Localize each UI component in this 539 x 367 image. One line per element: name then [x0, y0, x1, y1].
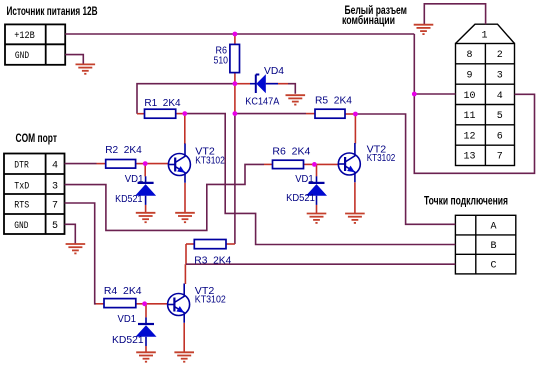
wire R3 right pin	[226, 243, 235, 245]
ground (VD1 stage3)	[136, 352, 156, 361]
pin number 7	[497, 152, 503, 163]
svg-text:9: 9	[466, 71, 472, 82]
ground (VT1 emitter)	[175, 213, 195, 222]
label VT2 (stage2)	[367, 144, 387, 156]
pin label GND (COM)	[14, 221, 28, 232]
svg-text:5: 5	[497, 111, 503, 122]
svg-text:KD521: KD521	[112, 334, 144, 346]
pin number 4	[52, 161, 58, 172]
junction +12V/pin10	[412, 92, 417, 97]
wire J3 to R5 left	[235, 113, 306, 115]
svg-text:KT3102: KT3102	[367, 152, 396, 164]
point label A	[490, 221, 496, 232]
pin number 3	[52, 182, 58, 193]
wire zener node down J2-J3	[234, 84, 236, 114]
wire node down to VD1	[144, 164, 146, 177]
resistor R1 body	[145, 109, 176, 118]
junction R2/VD1/VT1 base	[143, 161, 148, 166]
ground (power GND)	[76, 64, 96, 73]
wire zener node down J3 to R3	[234, 114, 236, 244]
COM port connector box	[4, 154, 65, 235]
ground (VT3 emitter)	[174, 352, 194, 361]
wire pin into R2 left	[97, 163, 106, 165]
wire pin into R6 left	[264, 163, 273, 165]
label KT3102 (stage3)	[195, 294, 226, 306]
svg-text:6: 6	[497, 131, 503, 142]
svg-text:R3 2K4: R3 2K4	[194, 255, 231, 267]
ground (pin 1)	[414, 25, 434, 34]
resistor R5 body	[315, 109, 345, 118]
junction node/R5 branch	[233, 111, 238, 116]
diode VD1 (stage2)	[306, 176, 327, 205]
wire R6 bottom pin to zener node	[234, 73, 236, 84]
transistor VT2 (KT3102)	[338, 143, 361, 182]
label R2 2K4	[105, 144, 142, 156]
svg-text:VD4: VD4	[264, 65, 284, 77]
wire VD4 left pin	[235, 83, 250, 85]
diode VD1 (stage3)	[136, 317, 157, 346]
label R3 2K4	[194, 255, 231, 267]
svg-text:B: B	[490, 241, 496, 252]
resistor R6 510 body	[230, 44, 240, 72]
label VT2 (stage1)	[195, 146, 215, 158]
svg-text:RTS: RTS	[14, 200, 29, 211]
label KD521 (stage1)	[115, 193, 143, 205]
wire VT2 emitter to ground	[354, 182, 356, 213]
transistor VT3 (KT3102)	[167, 284, 190, 323]
wire net A from VT2 node to point A	[355, 114, 455, 224]
svg-text:3: 3	[52, 182, 58, 193]
svg-text:R4 2K4: R4 2K4	[104, 285, 142, 297]
wire RTS routing to R4	[65, 203, 97, 304]
wire pin into R5 left	[306, 113, 315, 115]
wire node to VT2 base	[314, 163, 338, 165]
label R6	[216, 45, 228, 57]
junction R4/VD1/VT3 base	[142, 301, 147, 306]
title: комбинации	[342, 13, 395, 27]
power supply connector X1 box	[5, 24, 65, 64]
svg-text:GND: GND	[14, 221, 28, 232]
diode VD1 (stage1)	[135, 176, 156, 205]
wire loop to pin 4	[414, 94, 534, 173]
wire COM GND to ground	[65, 224, 76, 244]
wire VD4 right pin	[266, 83, 288, 85]
pin number 8	[466, 50, 472, 61]
wire zener node left branch to R1	[137, 84, 235, 114]
svg-text:A: A	[490, 221, 496, 232]
svg-text:R5 2K4: R5 2K4	[315, 95, 352, 107]
pin label RTS	[14, 200, 29, 211]
resistor R4 body	[104, 299, 136, 308]
svg-text:7: 7	[497, 152, 503, 163]
svg-text:13: 13	[463, 152, 475, 163]
svg-text:KD521: KD521	[286, 192, 315, 204]
svg-text:4: 4	[52, 161, 58, 172]
wire node to pin 10	[414, 93, 455, 95]
svg-text:R1 2K4: R1 2K4	[144, 97, 180, 109]
junction R5/VT2 collector	[353, 112, 358, 117]
svg-text:12: 12	[463, 131, 475, 142]
pin label +12В	[14, 31, 35, 42]
wire R5 right pin to node	[345, 113, 356, 115]
junction rail/R6	[233, 32, 238, 37]
label KD521 (stage2)	[286, 192, 315, 204]
wire VT1 emitter to ground	[184, 183, 186, 213]
wire R3 left pin	[186, 243, 194, 245]
svg-text:+12В: +12В	[14, 31, 35, 42]
pin number 4	[497, 91, 503, 102]
label 510	[214, 55, 229, 67]
wire VT3 emitter to ground	[183, 323, 185, 352]
pin label TxD	[14, 182, 29, 193]
label R6 2K4	[272, 146, 310, 158]
label R5 2K4	[315, 95, 352, 107]
wire R2 right pin to node	[136, 163, 146, 165]
wire node down to VD1 bottom	[145, 304, 147, 318]
pin number 11	[463, 111, 475, 122]
svg-text:7: 7	[52, 200, 58, 211]
pin number 12	[463, 131, 475, 142]
svg-text:TxD: TxD	[14, 182, 29, 193]
pin number 13	[463, 152, 475, 163]
wire VD4 to ground	[288, 84, 295, 94]
svg-text:4: 4	[497, 91, 503, 102]
svg-text:R2 2K4: R2 2K4	[105, 144, 142, 156]
svg-text:2: 2	[497, 50, 503, 61]
pin number 1	[481, 31, 487, 42]
wire net C to point C	[186, 263, 455, 265]
pin number 6	[497, 131, 503, 142]
pin number 5	[497, 111, 503, 122]
connection points box	[455, 215, 515, 274]
svg-text:8: 8	[466, 50, 472, 61]
pin label DTR	[14, 161, 28, 172]
svg-text:комбинации: комбинации	[342, 13, 395, 27]
label KC147A	[245, 96, 279, 108]
svg-text:5: 5	[52, 221, 58, 232]
svg-text:COM порт: COM порт	[16, 131, 58, 145]
wire R4 right pin to node	[136, 303, 145, 305]
zener diode VD4 (KC147A)	[250, 74, 278, 93]
wire TxD routing to R6 2K4	[65, 164, 265, 230]
wire VT2 collector	[354, 114, 356, 144]
svg-text:Источник питания 12В: Источник питания 12В	[7, 4, 98, 18]
wire net B from VT1 node to point B	[185, 114, 456, 245]
wire node to VT3 base	[145, 303, 168, 305]
svg-text:1: 1	[481, 31, 487, 42]
label R1 2K4	[144, 97, 180, 109]
wire pin 1 to ground	[424, 4, 485, 25]
wire VD1 to ground	[145, 205, 147, 213]
pin label GND (power)	[15, 51, 29, 62]
ground (VD1 stage2)	[307, 214, 327, 223]
junction zener node	[233, 81, 238, 86]
junction R6/VD1/VT2 base	[312, 162, 317, 167]
wire R3 down to VT3 collector	[185, 244, 187, 264]
wire R1 right pin to node	[176, 113, 185, 115]
wire node down to VD1 mid	[316, 164, 318, 176]
title: Точки подключения	[424, 194, 508, 208]
resistor R3 body	[194, 240, 226, 249]
label VD1 (stage2)	[295, 173, 314, 185]
label VD1 (stage1)	[125, 173, 144, 185]
svg-text:R6 2K4: R6 2K4	[272, 146, 310, 158]
svg-text:510: 510	[214, 55, 229, 67]
ground (VT2 emitter)	[345, 214, 365, 223]
pin number 7	[52, 200, 58, 211]
junction R1/VT1 collector	[182, 111, 187, 116]
transistor VT1 (KT3102)	[168, 144, 191, 183]
label R4 2K4	[104, 285, 142, 297]
pin number 2	[497, 50, 503, 61]
wire R6 right pin to node	[304, 163, 315, 165]
title: COM порт	[16, 131, 58, 145]
label VD1 (stage3)	[118, 313, 137, 325]
svg-text:VD1: VD1	[295, 173, 314, 185]
label KT3102 (stage1)	[195, 154, 225, 166]
label VD4	[264, 65, 284, 77]
ground (COM GND)	[66, 244, 86, 253]
svg-text:C: C	[490, 261, 496, 272]
title: Источник питания 12В	[7, 4, 98, 18]
wire VD1 mid to ground	[316, 205, 318, 213]
wire pin into R4 left	[96, 303, 104, 305]
pin number 3	[497, 71, 503, 82]
wire DTR to R2	[65, 163, 97, 165]
title: Белый разъем	[345, 3, 408, 17]
pin number 5	[52, 221, 58, 232]
svg-text:KD521: KD521	[115, 193, 143, 205]
svg-text:KT3102: KT3102	[195, 154, 225, 166]
label KT3102 (stage2)	[367, 152, 396, 164]
pin number 10	[463, 91, 475, 102]
wire node to VT1 base	[145, 163, 168, 165]
label VT2 (stage3)	[195, 285, 215, 297]
svg-text:KC147A: KC147A	[245, 96, 279, 108]
label KD521 (stage3)	[112, 334, 144, 346]
wire rail to R6 top pin	[234, 34, 236, 44]
wire rail drop to pin10 node	[413, 34, 415, 94]
resistor R2 body	[106, 160, 136, 169]
point label B	[490, 241, 496, 252]
wire +12V rail	[65, 33, 414, 35]
svg-text:VD1: VD1	[125, 173, 144, 185]
wire pin into R1 left	[137, 113, 145, 115]
svg-text:DTR: DTR	[14, 161, 28, 172]
svg-text:GND: GND	[15, 51, 29, 62]
white combination connector body	[456, 24, 515, 165]
svg-text:KT3102: KT3102	[195, 294, 226, 306]
svg-text:11: 11	[463, 111, 475, 122]
wire power GND to ground	[65, 55, 83, 64]
svg-text:VD1: VD1	[118, 313, 137, 325]
svg-text:3: 3	[497, 71, 503, 82]
point label C	[490, 261, 496, 272]
ground (VD1 stage1)	[136, 213, 156, 222]
wire VT1 collector	[184, 114, 186, 144]
svg-text:Точки подключения: Точки подключения	[424, 194, 508, 208]
ground (VD4)	[286, 95, 306, 104]
wire VD1 bottom to ground	[145, 346, 147, 352]
resistor R6 2K4 body	[273, 160, 304, 168]
svg-text:10: 10	[463, 91, 475, 102]
wire VT3 collector upper	[184, 264, 186, 284]
pin number 9	[466, 71, 472, 82]
